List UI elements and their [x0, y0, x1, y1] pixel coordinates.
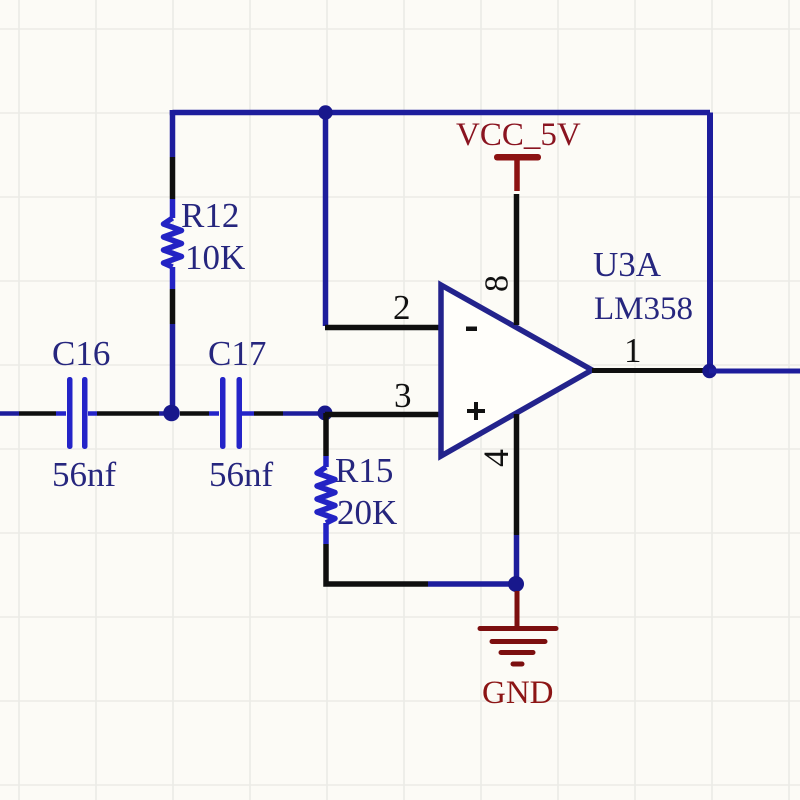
power VCC bar symbol [494, 154, 541, 161]
svg-text:8: 8 [479, 275, 516, 292]
wire pin 8 black [514, 194, 520, 325]
wire output to right edge blue [709, 369, 800, 374]
wire R12 bottom lead blue [170, 324, 176, 413]
svg-text:GND: GND [482, 675, 554, 711]
wire input stub to C16 [56, 411, 66, 416]
node junction top [318, 105, 332, 119]
node junction output [702, 364, 716, 378]
svg-text:R15: R15 [335, 451, 393, 490]
wire R15 top lead black [323, 413, 329, 456]
resistor R12 [164, 218, 182, 267]
svg-text:20K: 20K [337, 493, 397, 532]
wire pin 4 black [514, 414, 520, 535]
wire into node A blue [159, 411, 172, 416]
svg-text:R12: R12 [181, 196, 239, 235]
svg-text:4: 4 [476, 449, 516, 467]
wire pin 4 blue to ground node [514, 535, 520, 584]
wire C17 to node black [254, 411, 283, 416]
wire C17 right stub blue [242, 411, 254, 416]
svg-text:2: 2 [393, 288, 411, 327]
op-amp U1 triangle [441, 285, 592, 456]
wire GND stem red [515, 591, 520, 628]
capacitor C16 [67, 377, 88, 449]
node junction at C16/C17/R12 [163, 405, 180, 422]
svg-text:1: 1 [624, 331, 642, 370]
wire R12 lead blue below body [170, 267, 176, 289]
wire into plus node blue [283, 411, 325, 416]
wire R12 lead blue above body [170, 199, 176, 218]
wire C16 to node black [97, 411, 159, 416]
wire R15 bottom lead black with corner [326, 544, 428, 584]
plus sign non-inverting input [467, 402, 485, 420]
svg-text:3: 3 [394, 376, 412, 415]
wire C16 right stub [88, 411, 97, 416]
wire R12 top lead blue [170, 110, 176, 157]
wire R12 top lead black [170, 157, 176, 199]
svg-text:C16: C16 [52, 334, 110, 373]
svg-text:C17: C17 [208, 334, 266, 373]
wire input black segment [19, 411, 56, 416]
wire pin 2 black [325, 325, 441, 331]
svg-text:56nf: 56nf [209, 455, 274, 494]
minus sign inverting input [466, 327, 477, 332]
wire stub to C17 blue [209, 411, 219, 416]
svg-text:56nf: 56nf [52, 455, 117, 494]
wire right vertical [707, 113, 713, 372]
svg-text:10K: 10K [185, 238, 245, 277]
wire VCC stem red [514, 158, 520, 191]
wire pin 3 black [325, 412, 441, 418]
capacitor C17 [220, 377, 242, 449]
wire node to C17 black [180, 411, 209, 416]
wire bottom to ground node blue [428, 581, 516, 587]
wire R15 lead blue above body [323, 456, 329, 467]
resistor R15 [317, 467, 335, 523]
wire input left blue [0, 411, 19, 416]
wire feedback vertical to pin2 [323, 113, 329, 327]
wire R15 lead blue below body [323, 523, 329, 544]
wire top feedback horizontal [173, 110, 711, 113]
node junction ground [508, 576, 524, 592]
ground symbol bars [480, 629, 556, 665]
svg-text:LM358: LM358 [594, 291, 693, 327]
svg-text:VCC_5V: VCC_5V [456, 117, 581, 153]
wire R12 bottom lead black [170, 289, 176, 324]
svg-text:U3A: U3A [593, 245, 662, 284]
wire output black [592, 368, 707, 373]
node junction at pin3/R15 [318, 406, 333, 421]
